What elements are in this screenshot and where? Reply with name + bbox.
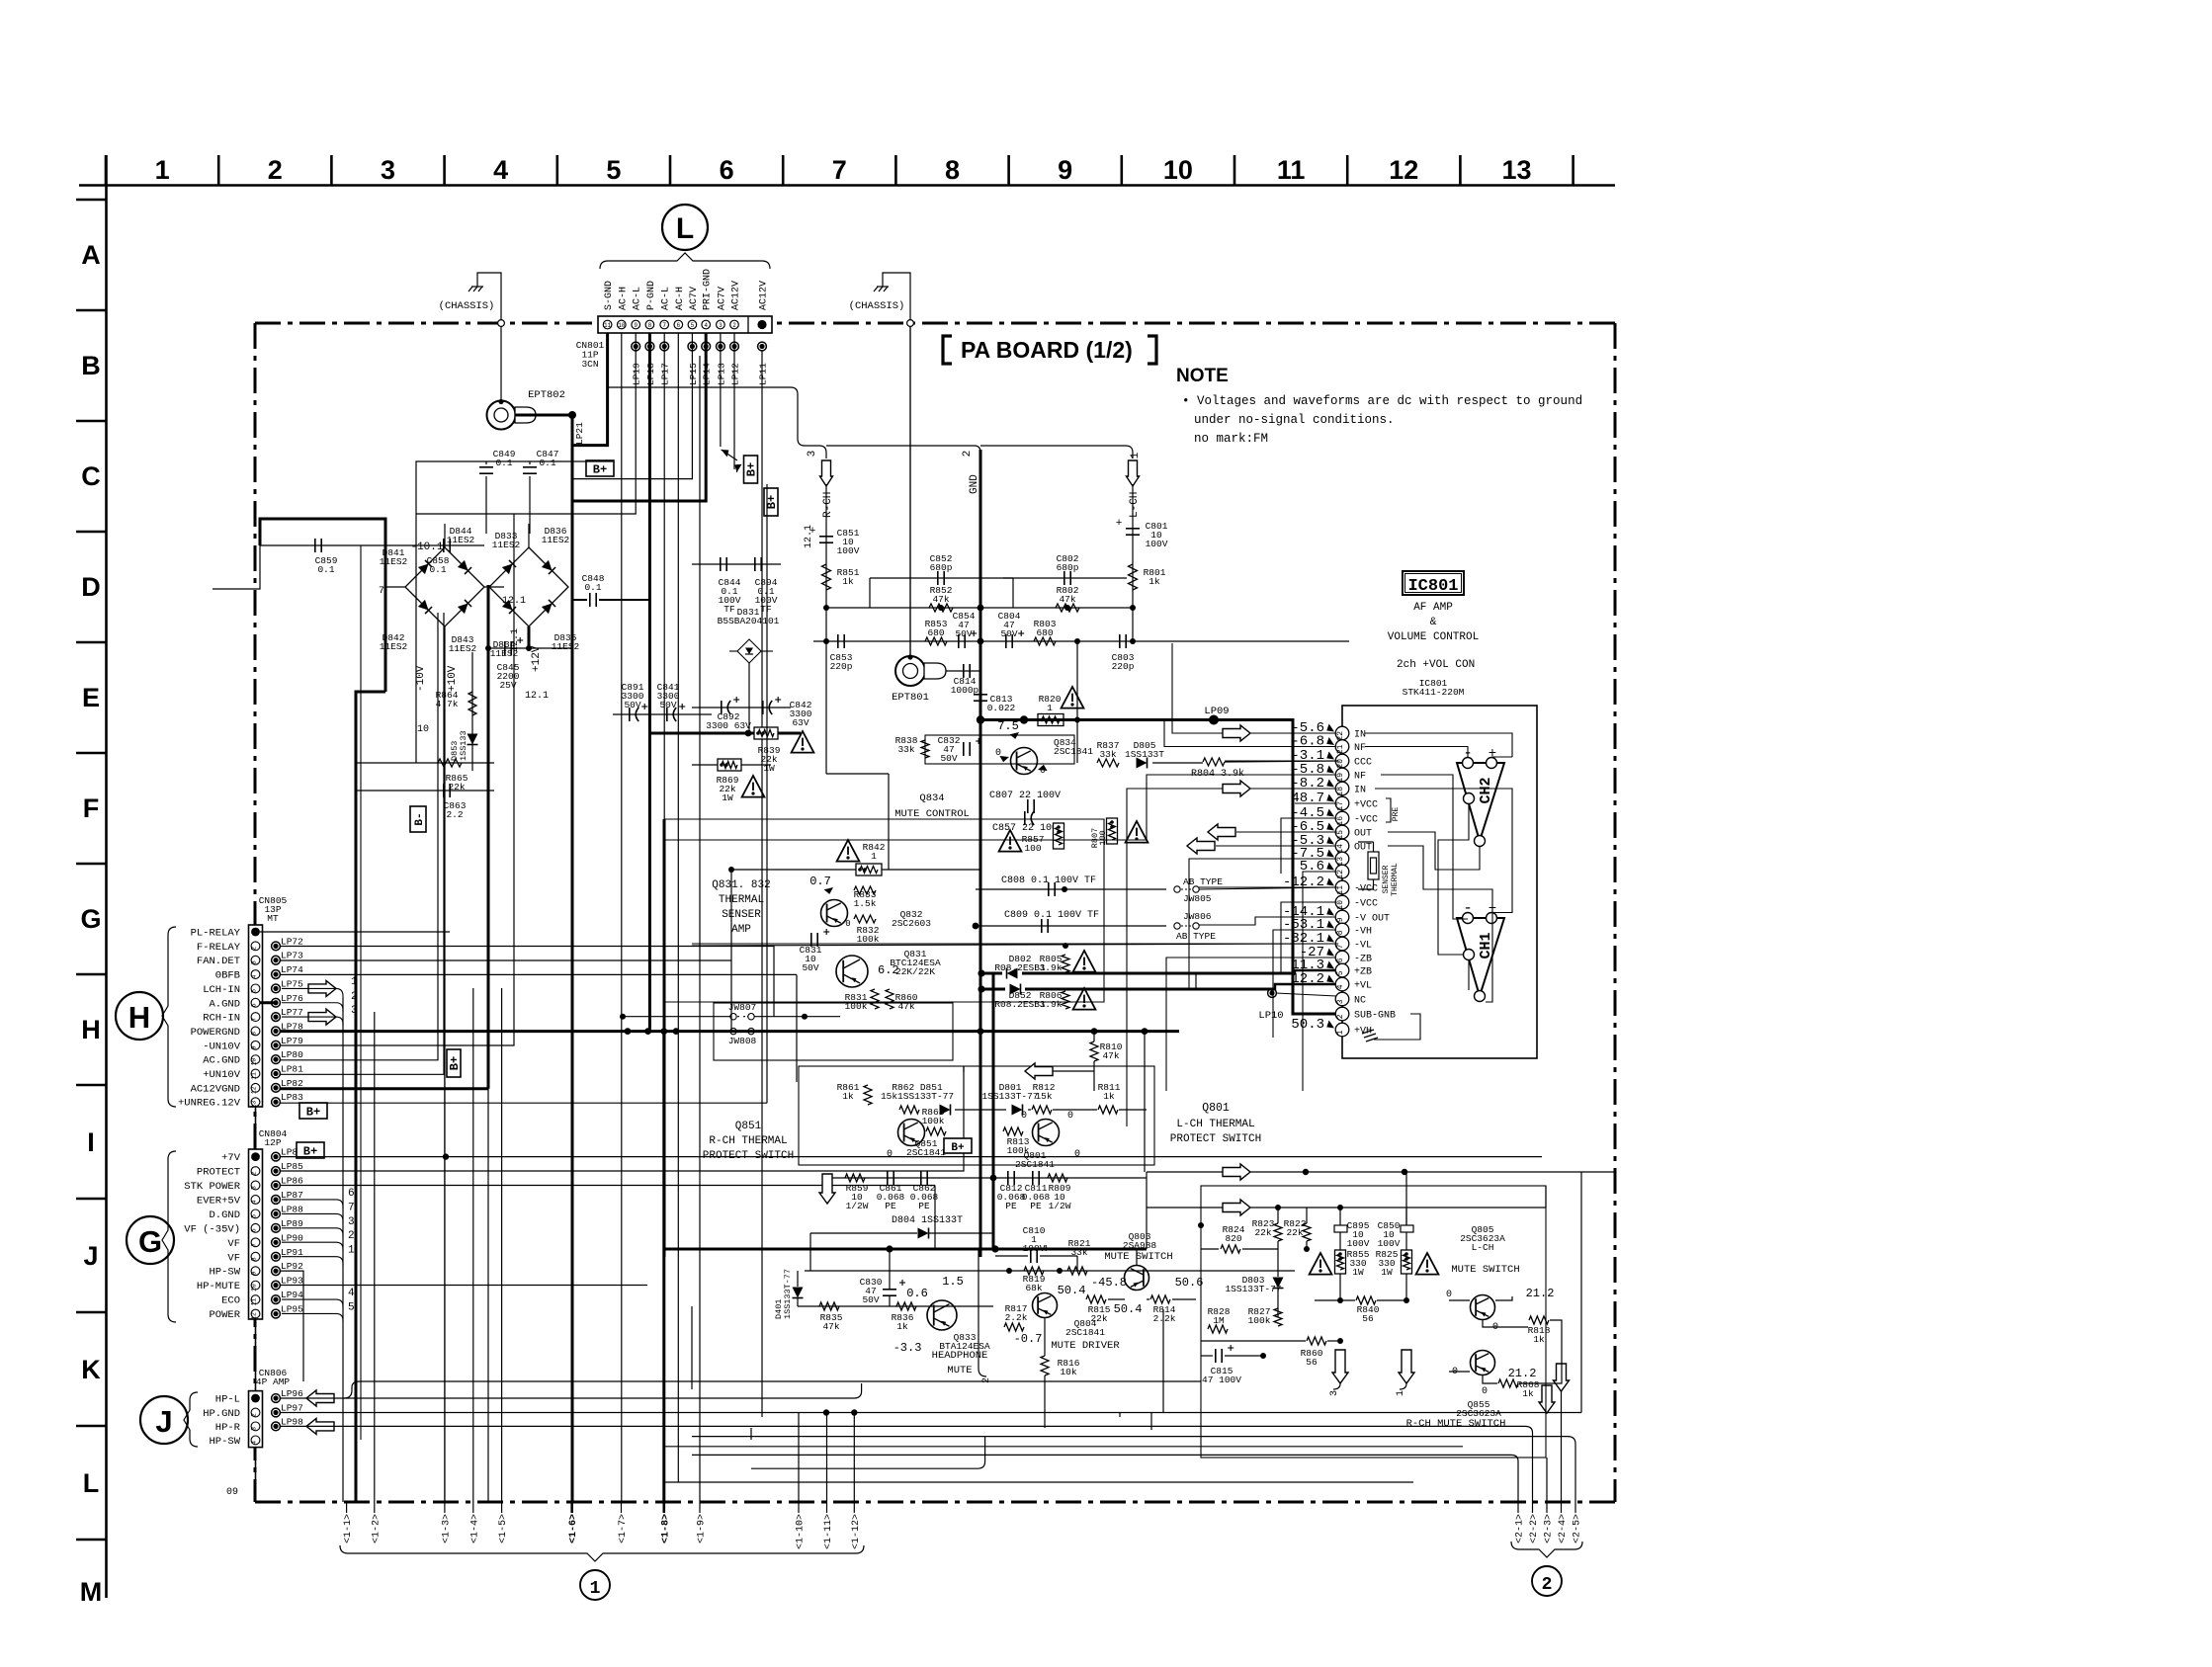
C863 2.2 xyxy=(356,790,494,792)
brace G rows xyxy=(162,1151,176,1322)
CN805 pin 7 RCH-IN xyxy=(251,1013,260,1022)
svg-text:12: 12 xyxy=(251,1312,258,1320)
IC801 pin 9 xyxy=(1335,910,1349,924)
svg-text:8: 8 xyxy=(945,155,960,185)
svg-text:2ch +VOL CON: 2ch +VOL CON xyxy=(1397,659,1475,671)
svg-text:0.1: 0.1 xyxy=(317,564,334,575)
svg-text:LP81: LP81 xyxy=(281,1064,303,1075)
svg-text:LP96: LP96 xyxy=(281,1388,303,1399)
main 649 row xyxy=(813,640,1349,642)
svg-text:AC12V: AC12V xyxy=(759,281,770,310)
svg-text:3: 3 xyxy=(807,451,818,458)
R-CH protect switch box xyxy=(799,1066,1154,1165)
svg-text:LP88: LP88 xyxy=(281,1204,303,1214)
R860 47k xyxy=(886,989,893,1009)
IC801 pin 10 xyxy=(1335,895,1349,909)
svg-text:3: 3 xyxy=(381,155,395,185)
R825 330 1W xyxy=(1402,1250,1412,1274)
svg-text:7.5: 7.5 xyxy=(997,719,1019,733)
svg-text:10: 10 xyxy=(618,322,626,329)
svg-text:6: 6 xyxy=(251,1003,258,1007)
IC801 pin 2 xyxy=(1335,1007,1349,1021)
svg-text:<2-2>: <2-2> xyxy=(1529,1514,1540,1543)
svg-text:0.1: 0.1 xyxy=(584,582,601,593)
svg-text:9: 9 xyxy=(251,1045,258,1049)
svg-text:1k: 1k xyxy=(842,1091,854,1102)
CN805 pin 5 LCH-IN xyxy=(251,984,260,993)
R857 100 boxed xyxy=(1054,823,1064,849)
PA board dash-dot border xyxy=(255,322,1615,325)
svg-text:<2-4>: <2-4> xyxy=(1558,1514,1569,1543)
arrow 1-5 xyxy=(501,1502,503,1513)
svg-text:16: 16 xyxy=(1336,816,1345,826)
svg-text:JW805: JW805 xyxy=(1183,893,1212,904)
svg-text:9: 9 xyxy=(1336,917,1345,922)
IC801 pin 22 xyxy=(1335,726,1349,740)
R839 22k 1W boxed xyxy=(649,732,801,735)
CN805 pin 9 -UN10V xyxy=(251,1041,260,1049)
svg-text:2: 2 xyxy=(268,155,283,185)
arrow 1-1 xyxy=(346,1502,348,1513)
svg-text:50V: 50V xyxy=(802,962,818,973)
chassis ground left xyxy=(476,279,478,287)
svg-text:5: 5 xyxy=(251,989,258,993)
IC801 pin 5 xyxy=(1335,963,1349,977)
svg-text:Q801: Q801 xyxy=(1202,1102,1230,1115)
Q801 transistor xyxy=(1033,1120,1060,1146)
arrow 1-2 xyxy=(374,1502,376,1513)
svg-text:33k: 33k xyxy=(1099,749,1116,760)
svg-text:3CN: 3CN xyxy=(581,359,598,370)
IC801 pin 8 xyxy=(1335,923,1349,937)
CN805 pin 10 AC.GND xyxy=(251,1055,260,1064)
R868 1k xyxy=(1498,1379,1518,1387)
CN806 pin 4 HP-SW xyxy=(251,1436,260,1445)
svg-text:C809 0.1 100V TF: C809 0.1 100V TF xyxy=(1004,910,1099,921)
svg-text:7: 7 xyxy=(1336,944,1345,949)
G rows wires xyxy=(280,1156,1542,1158)
svg-text:+VCC: +VCC xyxy=(1354,800,1378,811)
row 1222 xyxy=(1147,1207,1546,1209)
svg-text:22k: 22k xyxy=(1254,1227,1271,1238)
svg-text:100k: 100k xyxy=(1248,1315,1271,1326)
hooks 6 7 3 2 1 4 5 xyxy=(282,1200,343,1209)
C814 1000p xyxy=(946,670,980,672)
svg-text:AC7V: AC7V xyxy=(689,287,700,310)
svg-text:STK411-220M: STK411-220M xyxy=(1403,687,1465,698)
bottom bus rows xyxy=(664,1481,1413,1483)
svg-text:R804 3.9k: R804 3.9k xyxy=(1191,768,1244,780)
IC801 pin 1 xyxy=(1335,1023,1349,1037)
svg-text:POWERGND: POWERGND xyxy=(191,1027,240,1039)
svg-text:6: 6 xyxy=(251,1228,258,1232)
AC12VGND bold row xyxy=(280,1087,488,1090)
D851 diode xyxy=(940,1105,951,1116)
svg-text:MUTE: MUTE xyxy=(947,1365,972,1376)
svg-text:JW806: JW806 xyxy=(1183,911,1212,922)
CN804 pin 10 HP-MUTE xyxy=(251,1281,260,1290)
svg-text:8: 8 xyxy=(648,322,652,329)
svg-text:B5SBA204101: B5SBA204101 xyxy=(718,616,780,626)
C851 cap xyxy=(825,484,827,641)
IC801 outline box xyxy=(1342,706,1537,1058)
svg-text:PRI-GND: PRI-GND xyxy=(703,269,714,310)
arrow 1-9 xyxy=(699,1502,701,1513)
svg-text:10k: 10k xyxy=(1060,1367,1076,1377)
svg-text:100V: 100V xyxy=(1023,1243,1046,1254)
svg-text:48.7: 48.7 xyxy=(1291,791,1324,806)
svg-text:MUTE DRIVER: MUTE DRIVER xyxy=(1051,1340,1120,1352)
svg-text:L-CH: L-CH xyxy=(1472,1242,1494,1253)
vertical feeds 1-3..1-5 xyxy=(444,974,446,1502)
LP72-LP83 pads xyxy=(272,942,281,951)
svg-text:11ES2: 11ES2 xyxy=(447,535,475,545)
bold row 1001 xyxy=(981,988,1005,991)
svg-text:LP74: LP74 xyxy=(281,964,303,975)
B+ tags left xyxy=(299,1103,327,1119)
LP21 pad xyxy=(516,414,573,417)
svg-text:3: 3 xyxy=(719,322,723,329)
op-amp CH1 xyxy=(1457,918,1504,996)
Q805 transistor 1 xyxy=(1471,1295,1495,1320)
JW807/JW808 box xyxy=(714,1003,953,1060)
R-CH loop wire xyxy=(825,641,827,774)
thermal senser amp box xyxy=(664,819,1104,1002)
B+ tag near C849 xyxy=(586,460,614,476)
wire pin11 bold elbow xyxy=(572,333,608,446)
svg-text:7: 7 xyxy=(662,322,666,329)
svg-text:G: G xyxy=(80,904,101,934)
svg-text:AF AMP: AF AMP xyxy=(1413,602,1453,614)
B+ tag rotated xyxy=(744,456,758,483)
CN804 pin 8 VF xyxy=(251,1252,260,1261)
svg-text:50V: 50V xyxy=(862,1294,879,1305)
svg-text:1: 1 xyxy=(1047,703,1053,713)
svg-text:R-CH MUTE SWITCH: R-CH MUTE SWITCH xyxy=(1406,1418,1506,1430)
CN805 pin 6 A.GND xyxy=(251,998,260,1007)
mute box xyxy=(1201,1186,1546,1458)
arrows HP-L HP-R xyxy=(306,1390,334,1406)
svg-text:HP.GND: HP.GND xyxy=(203,1408,240,1420)
wire pin5 left elbow xyxy=(573,333,692,479)
svg-text:C807 22 100V: C807 22 100V xyxy=(989,791,1061,801)
svg-text:21: 21 xyxy=(1336,744,1345,754)
svg-text:1: 1 xyxy=(1130,452,1142,458)
CN804 pin 11 ECO xyxy=(251,1295,260,1304)
svg-text:4P AMP: 4P AMP xyxy=(256,1376,291,1387)
row 1186 xyxy=(1147,1171,1615,1173)
svg-text:2: 2 xyxy=(1336,1014,1345,1019)
svg-text:12: 12 xyxy=(1336,870,1345,879)
wire pin6 xyxy=(677,333,679,1482)
svg-text:680p: 680p xyxy=(1057,562,1079,573)
svg-text:PROTECT SWITCH: PROTECT SWITCH xyxy=(703,1150,794,1162)
svg-text:2: 2 xyxy=(732,322,736,329)
svg-text:3: 3 xyxy=(348,1216,355,1228)
svg-text:-3.3: -3.3 xyxy=(893,1341,922,1355)
svg-text:B: B xyxy=(81,351,101,380)
svg-text:100V: 100V xyxy=(1378,1238,1401,1249)
arrow 2-4 xyxy=(1561,1502,1563,1513)
svg-text:3: 3 xyxy=(251,1427,258,1431)
svg-text:B+: B+ xyxy=(306,1106,320,1120)
svg-text:11: 11 xyxy=(1277,155,1306,185)
svg-text:1: 1 xyxy=(1336,1030,1345,1035)
IC801 label box xyxy=(1403,571,1464,595)
svg-text:2SA988: 2SA988 xyxy=(1123,1240,1157,1251)
svg-text:EVER+5V: EVER+5V xyxy=(197,1195,241,1207)
svg-text:(CHASSIS): (CHASSIS) xyxy=(439,300,495,312)
Q832 transistor xyxy=(821,900,848,927)
B+ arrows xyxy=(722,450,737,460)
svg-text:100V: 100V xyxy=(1347,1238,1370,1249)
bus to R-CH / GND / L-CH xyxy=(608,387,826,458)
hook bus vertical xyxy=(342,998,344,1502)
CN804 pin 12 POWER xyxy=(251,1309,260,1318)
svg-text:0.1: 0.1 xyxy=(495,458,512,468)
svg-text:<2-5>: <2-5> xyxy=(1573,1514,1583,1543)
svg-text:VF: VF xyxy=(227,1238,240,1250)
svg-text:4: 4 xyxy=(251,1441,258,1445)
svg-text:3: 3 xyxy=(251,960,258,964)
svg-text:+: + xyxy=(1489,746,1496,762)
Q831 darlington xyxy=(836,956,868,987)
LP96-LP98 pads xyxy=(272,1394,281,1403)
svg-text:LP89: LP89 xyxy=(281,1218,303,1229)
svg-text:8: 8 xyxy=(251,1032,258,1036)
arrow 1-6 xyxy=(570,1502,573,1513)
C813 0.022 xyxy=(979,641,982,719)
svg-text:IN: IN xyxy=(1354,786,1366,796)
svg-text:+: + xyxy=(1116,518,1123,530)
svg-text:LP97: LP97 xyxy=(281,1403,303,1414)
+UNREG12V row xyxy=(280,1102,767,1104)
svg-text:HP-SW: HP-SW xyxy=(209,1436,240,1448)
Q834 transistor xyxy=(1011,748,1038,775)
svg-text:D: D xyxy=(81,572,101,602)
R855 330 1W xyxy=(1335,1250,1346,1274)
R869 22k 1W boxed xyxy=(692,764,771,766)
wire pin10 down (1-7) xyxy=(621,333,623,1502)
center verticals xyxy=(730,870,732,1032)
R804 3.9k xyxy=(1203,758,1225,766)
bridge wires xyxy=(385,586,405,588)
svg-text:P-GND: P-GND xyxy=(646,281,657,310)
left vertical wires xyxy=(355,763,357,791)
svg-text:-10V: -10V xyxy=(415,665,427,692)
svg-text:220p: 220p xyxy=(830,661,853,672)
svg-text:-VL: -VL xyxy=(1354,941,1372,952)
CN805 pin 1 PL-RELAY xyxy=(251,928,260,937)
svg-text:1/2W: 1/2W xyxy=(846,1201,869,1211)
IC801 pin 17 xyxy=(1335,796,1349,810)
svg-text:21.2: 21.2 xyxy=(1508,1367,1537,1380)
svg-text:PE: PE xyxy=(1030,1201,1042,1211)
svg-text:7: 7 xyxy=(251,1018,258,1022)
svg-text:5: 5 xyxy=(1336,970,1345,975)
big down arrows 3 1 xyxy=(1332,1350,1348,1383)
arrow 2-2 xyxy=(1532,1502,1534,1513)
CN804 pin 6 VF (-35V) xyxy=(251,1223,260,1232)
svg-text:LP91: LP91 xyxy=(281,1247,303,1258)
svg-text:47 100V: 47 100V xyxy=(1202,1375,1241,1385)
svg-text:D804 1SS133T: D804 1SS133T xyxy=(892,1215,963,1226)
svg-text:10: 10 xyxy=(251,1284,258,1292)
C802 680p xyxy=(1003,577,1127,579)
svg-text:7: 7 xyxy=(832,155,847,185)
svg-text:1k: 1k xyxy=(896,1321,908,1332)
svg-text:2: 2 xyxy=(1542,1575,1553,1595)
transformer EPT802 xyxy=(487,401,516,430)
svg-text:+12V: +12V xyxy=(531,645,543,672)
svg-text:50.4: 50.4 xyxy=(1058,1284,1086,1297)
svg-text:1/2W: 1/2W xyxy=(1049,1201,1071,1211)
SUB-GNB ground xyxy=(1374,1014,1420,1040)
LP11-LP19 pads xyxy=(632,342,640,351)
svg-text:5.6: 5.6 xyxy=(1300,859,1324,875)
R852 row xyxy=(826,607,1133,609)
IC801 pin 7 xyxy=(1335,937,1349,951)
svg-text:LP87: LP87 xyxy=(281,1190,303,1201)
svg-text:2SC1841: 2SC1841 xyxy=(1015,1159,1055,1170)
svg-text:22k: 22k xyxy=(1286,1227,1303,1238)
wires mute area xyxy=(1076,1256,1078,1271)
svg-text:LP75: LP75 xyxy=(281,978,303,989)
CN806 pin 2 HP.GND xyxy=(251,1408,260,1417)
R818 1k xyxy=(1529,1316,1549,1324)
svg-text:11ES2: 11ES2 xyxy=(552,641,580,652)
svg-text:09: 09 xyxy=(226,1487,238,1498)
connector CN801 xyxy=(598,316,772,333)
R835 47k xyxy=(798,1305,993,1307)
svg-text:LP15: LP15 xyxy=(688,363,699,385)
svg-text:3: 3 xyxy=(1336,999,1345,1004)
brace 2 xyxy=(1511,1542,1582,1557)
svg-text:<2-3>: <2-3> xyxy=(1544,1514,1555,1543)
svg-text:<1-11>: <1-11> xyxy=(823,1514,834,1549)
arrows near IC xyxy=(1223,725,1250,741)
row 957 xyxy=(692,944,1338,946)
svg-text:56: 56 xyxy=(1362,1313,1374,1324)
svg-text:33k: 33k xyxy=(1070,1247,1087,1258)
svg-text:VF (-35V): VF (-35V) xyxy=(184,1223,240,1235)
POWERGND bold row (JW808) xyxy=(280,1030,1179,1033)
svg-text:680p: 680p xyxy=(930,562,953,573)
CN804 pin 2 PROTECT xyxy=(251,1167,260,1176)
svg-text:PA BOARD (1/2): PA BOARD (1/2) xyxy=(961,337,1133,363)
bridge D833-D836 xyxy=(489,547,568,626)
svg-text:3.9k: 3.9k xyxy=(1040,999,1063,1010)
svg-text:5: 5 xyxy=(348,1301,355,1313)
svg-text:LP72: LP72 xyxy=(281,936,303,947)
svg-text:HEADPHONE: HEADPHONE xyxy=(932,1350,988,1362)
C812/C811/R809 row xyxy=(993,1177,1147,1179)
svg-text:IN: IN xyxy=(1354,730,1366,741)
svg-text:1k: 1k xyxy=(842,576,854,587)
R819 68k xyxy=(1024,1267,1044,1275)
D852 R806 xyxy=(1010,984,1021,995)
svg-text:LP13: LP13 xyxy=(716,363,726,385)
svg-text:4: 4 xyxy=(493,155,508,185)
arrows LCH-IN / RCH-IN xyxy=(308,980,336,996)
wire pin8 bold xyxy=(648,333,651,1032)
svg-text:PRE: PRE xyxy=(1392,807,1401,822)
wire pin7 xyxy=(663,333,665,1032)
svg-text:ECO: ECO xyxy=(221,1295,240,1307)
svg-text:AC7V: AC7V xyxy=(717,287,727,310)
svg-text:AC-L: AC-L xyxy=(661,287,672,310)
svg-text:POWER: POWER xyxy=(209,1309,240,1321)
svg-text:680: 680 xyxy=(1036,627,1053,638)
brace J rows xyxy=(184,1392,198,1447)
svg-text:1k: 1k xyxy=(1103,1091,1115,1102)
svg-text:11: 11 xyxy=(251,1072,258,1080)
svg-text:4: 4 xyxy=(1336,984,1345,989)
svg-text:5: 5 xyxy=(251,1214,258,1218)
R861 1k xyxy=(864,1085,872,1105)
svg-text:CH2: CH2 xyxy=(1478,777,1494,803)
svg-text:0: 0 xyxy=(1446,1290,1452,1300)
svg-text:0: 0 xyxy=(1074,1149,1080,1160)
svg-text:-8.2: -8.2 xyxy=(1291,776,1324,792)
svg-text:<1-7>: <1-7> xyxy=(618,1514,629,1543)
svg-text:7: 7 xyxy=(251,1243,258,1247)
svg-text:19: 19 xyxy=(1336,773,1345,783)
svg-text:L-CH THERMAL: L-CH THERMAL xyxy=(1176,1119,1254,1130)
svg-text:LP76: LP76 xyxy=(281,993,303,1004)
svg-text:47k: 47k xyxy=(1102,1050,1119,1061)
svg-text:JW807: JW807 xyxy=(728,1002,757,1013)
svg-text:2SC1841: 2SC1841 xyxy=(906,1147,946,1158)
arrow 1-3 xyxy=(444,1502,446,1513)
wire pin4 bold left elbow xyxy=(571,333,706,501)
svg-text:-VCC: -VCC xyxy=(1354,899,1378,910)
svg-text:VF: VF xyxy=(227,1252,240,1264)
R814 2.2k xyxy=(1150,1295,1170,1303)
svg-text:SUB-GNB: SUB-GNB xyxy=(1354,1011,1396,1022)
R801 1k xyxy=(1129,564,1138,590)
svg-text:B-: B- xyxy=(414,812,426,825)
mute switch internal wires xyxy=(1277,1208,1279,1223)
row 1286 xyxy=(805,1270,1295,1272)
svg-text:LP09: LP09 xyxy=(1204,706,1229,717)
C831 10 50V xyxy=(810,933,812,947)
wire bold (1-8) xyxy=(662,1032,665,1502)
bold 12V rail xyxy=(487,585,490,1089)
svg-text:2SC2603: 2SC2603 xyxy=(892,918,931,929)
svg-text:12.1: 12.1 xyxy=(525,691,549,702)
svg-text:&: & xyxy=(1430,617,1437,628)
CN804 pin 9 HP-SW xyxy=(251,1267,260,1276)
IC801 pin 6 xyxy=(1335,951,1349,964)
svg-text:MUTE SWITCH: MUTE SWITCH xyxy=(1451,1264,1519,1276)
svg-text:1k: 1k xyxy=(1522,1388,1534,1399)
B+ tag rotated 2 xyxy=(764,488,778,516)
EPT801 transformer xyxy=(895,656,925,686)
IC801 pin 12 xyxy=(1335,865,1349,878)
svg-text:B+: B+ xyxy=(593,463,607,477)
svg-text:8: 8 xyxy=(251,1257,258,1261)
svg-text:1k: 1k xyxy=(1533,1334,1545,1345)
svg-text:5: 5 xyxy=(606,155,621,185)
R836 1k xyxy=(896,1302,916,1310)
svg-text:LP80: LP80 xyxy=(281,1049,303,1060)
svg-text:<1-1>: <1-1> xyxy=(343,1514,354,1543)
svg-text:<2-1>: <2-1> xyxy=(1515,1514,1526,1543)
svg-text:J: J xyxy=(155,1404,172,1439)
D805 1SS133T xyxy=(1137,758,1148,769)
svg-text:1: 1 xyxy=(871,851,877,862)
